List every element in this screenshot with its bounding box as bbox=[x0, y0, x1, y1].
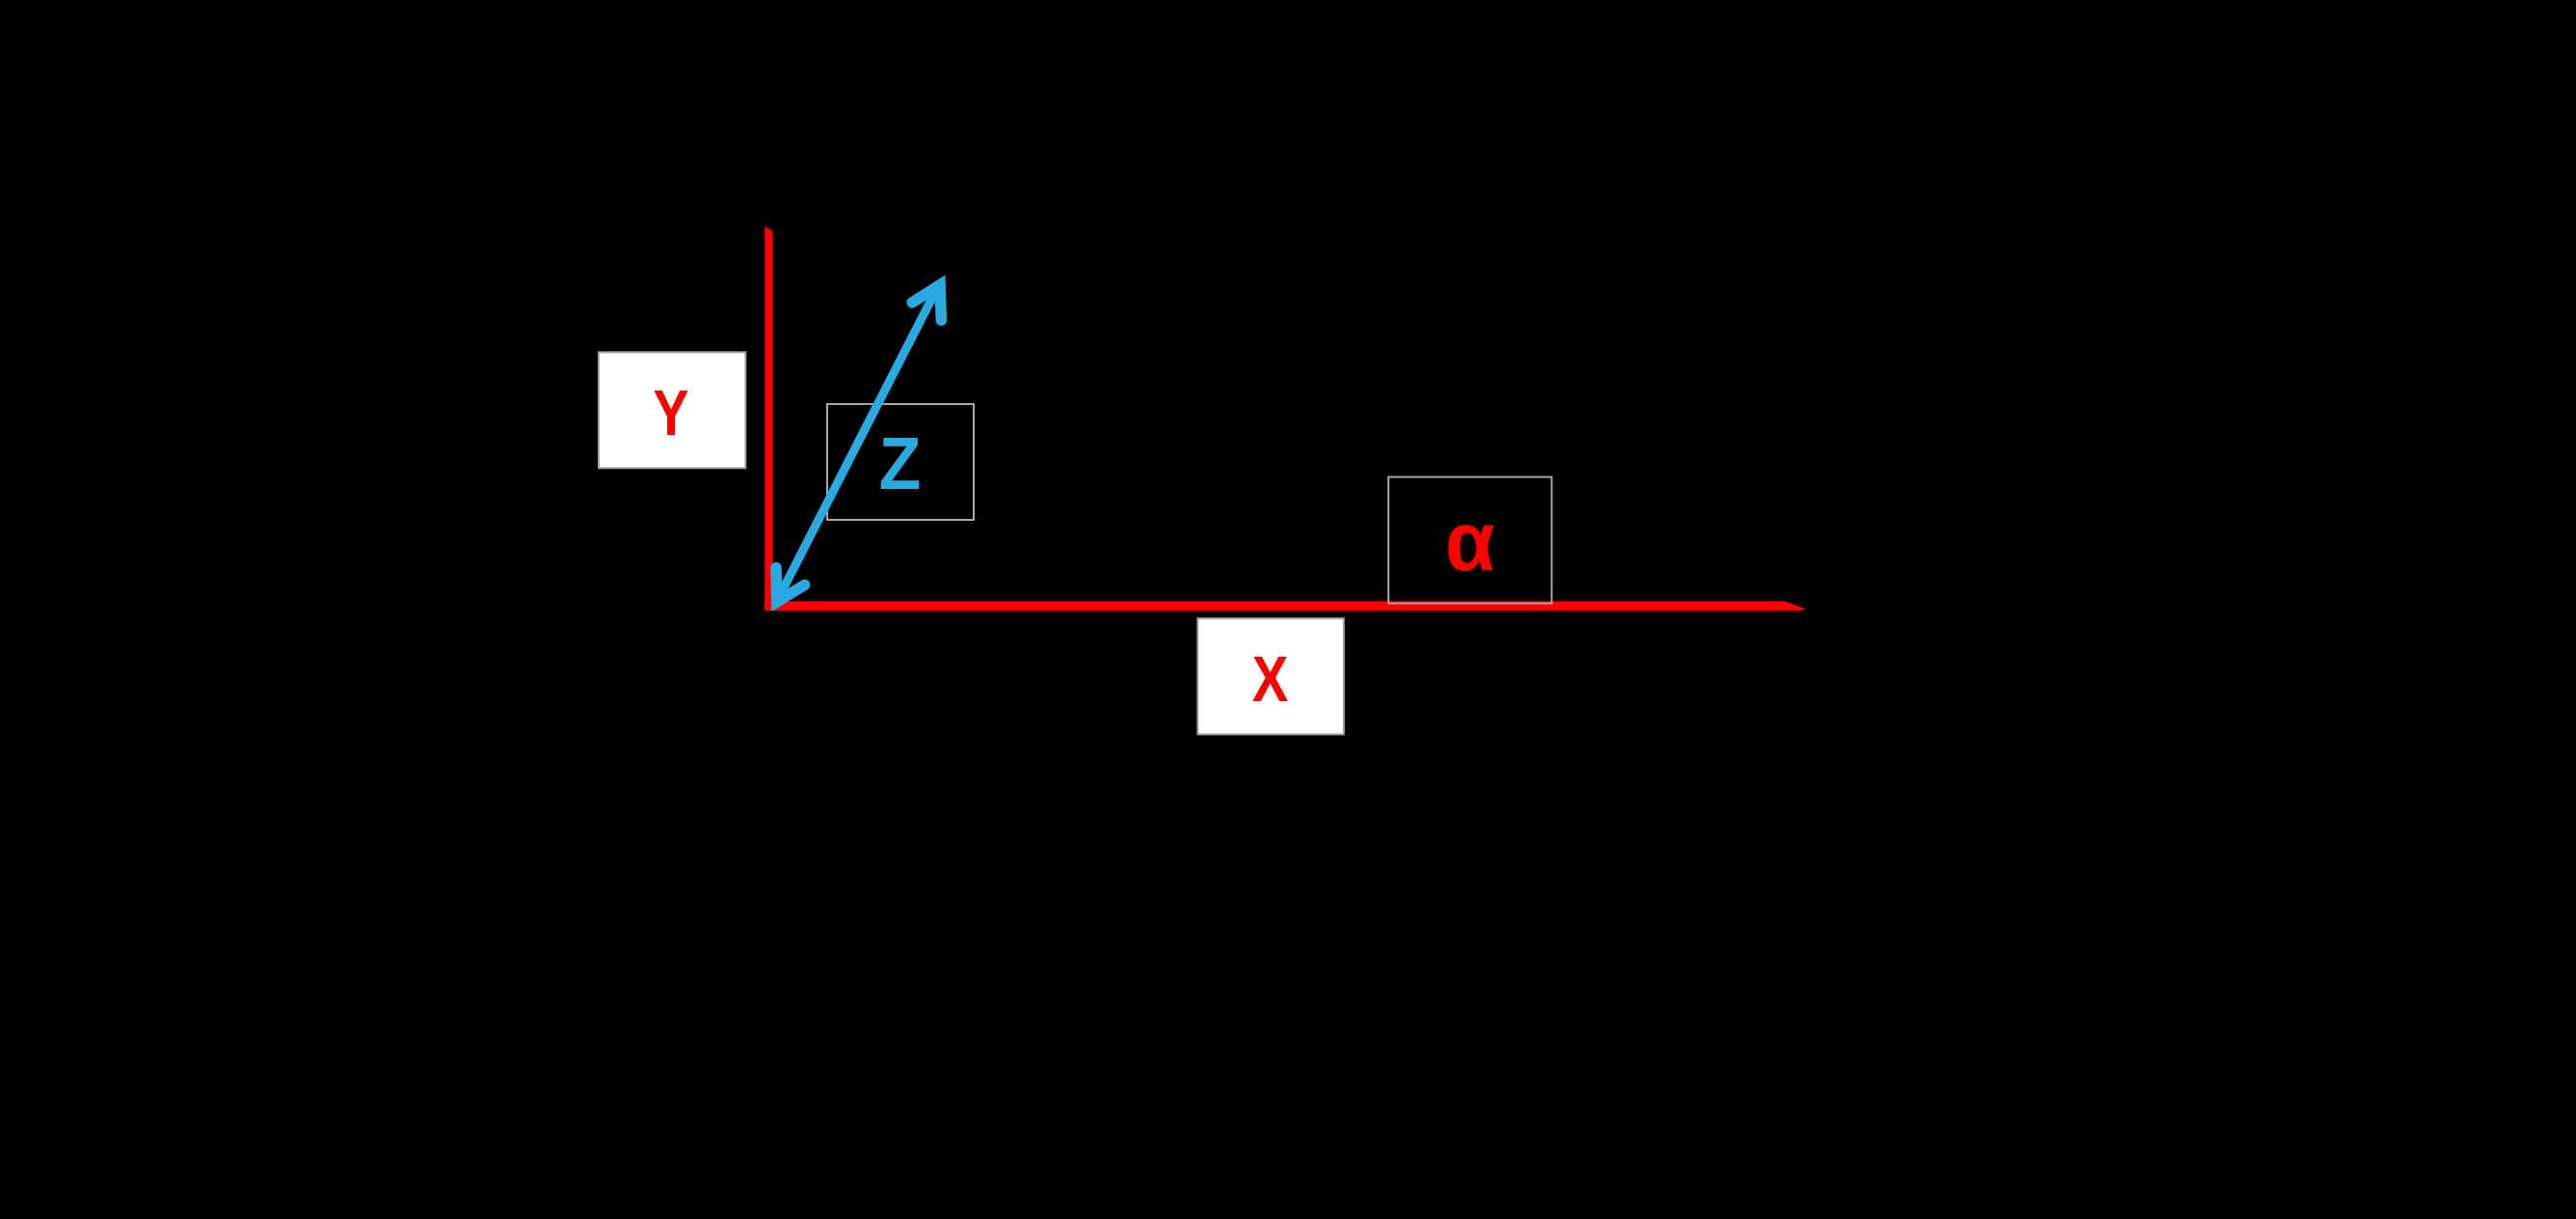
label box X bbox=[1197, 618, 1343, 734]
Z axis arrow (blue, double-headed) bbox=[776, 284, 941, 603]
lower arrowhead bbox=[776, 568, 805, 602]
svg-text:α: α bbox=[1445, 495, 1495, 588]
label box Z bbox=[827, 404, 974, 520]
X axis (red, tapered right tip) bbox=[765, 601, 1806, 610]
Y axis (red, slanted top cut) bbox=[765, 226, 772, 609]
label box alpha bbox=[1388, 477, 1551, 604]
svg-text:X: X bbox=[1252, 643, 1289, 716]
svg-text:Y: Y bbox=[653, 377, 688, 449]
svg-text:Z: Z bbox=[879, 422, 922, 505]
label box Y bbox=[599, 352, 745, 468]
upper arrowhead bbox=[912, 284, 941, 320]
arrow shaft bbox=[776, 286, 938, 603]
